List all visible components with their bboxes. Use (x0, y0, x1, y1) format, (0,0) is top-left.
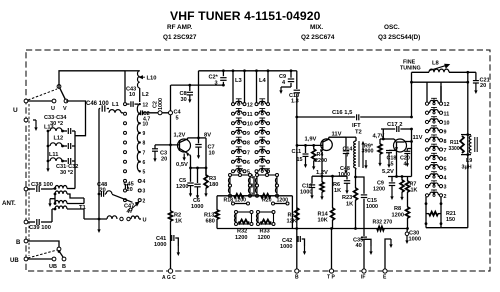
svg-text:MIX.: MIX. (310, 24, 323, 31)
svg-text:30: 30 (181, 97, 187, 103)
terminal TP (329, 269, 333, 273)
svg-text:12: 12 (143, 102, 149, 108)
svg-text:T P: T P (327, 275, 335, 281)
wire B line to terminal (296, 229, 298, 270)
wire Q3 base (380, 138, 394, 140)
capacitor C13 1000 (311, 176, 313, 184)
svg-text:B: B (62, 264, 66, 270)
svg-text:1K: 1K (334, 188, 341, 194)
svg-text:C46 100: C46 100 (86, 101, 109, 107)
Q2 collector up (323, 137, 329, 142)
resistor R13 680 on enclosure edge (216, 196, 218, 210)
ground arrow T1 center (50, 198, 55, 200)
svg-text:11V: 11V (413, 135, 423, 141)
svg-text:1K: 1K (346, 202, 353, 208)
svg-text:9: 9 (247, 131, 250, 137)
svg-text:L12: L12 (54, 136, 64, 142)
resistor R4 2200 (312, 144, 315, 147)
wire coil block right bus (74, 131, 76, 189)
Q1 emitter (180, 149, 189, 154)
terminal B bottom left (24, 239, 28, 243)
wire top rail to L10 (124, 71, 126, 102)
svg-text:30 *2: 30 *2 (60, 170, 73, 176)
svg-text:R33: R33 (260, 229, 270, 235)
svg-text:TUNING: TUNING (400, 66, 421, 72)
svg-text:1200: 1200 (373, 187, 385, 193)
svg-text:T2: T2 (355, 130, 362, 136)
svg-text:R8: R8 (394, 206, 401, 212)
terminal ANT lower (24, 220, 28, 224)
capacitor C39 (28, 221, 35, 223)
svg-text:10: 10 (129, 92, 135, 98)
svg-text:Q2 2SC674: Q2 2SC674 (301, 34, 335, 41)
svg-text:3: 3 (215, 81, 218, 87)
svg-text:IFT: IFT (352, 123, 361, 129)
svg-text:12: 12 (247, 102, 253, 108)
wire second rail under C2* (171, 84, 224, 86)
selector left contact column (124, 103, 127, 106)
svg-text:U: U (143, 218, 147, 224)
svg-text:1000: 1000 (280, 244, 292, 250)
UHF strip R33 1200 box (258, 212, 274, 224)
terminal below U (24, 118, 28, 122)
resistor R14 10K (332, 176, 334, 208)
svg-text:2: 2 (444, 194, 447, 200)
svg-text:RF AMP.: RF AMP. (167, 24, 192, 31)
svg-text:20: 20 (100, 188, 106, 194)
svg-text:40: 40 (356, 243, 362, 249)
svg-text:4: 4 (444, 175, 447, 181)
svg-text:R32: R32 (237, 229, 247, 235)
svg-text:1000: 1000 (338, 172, 350, 178)
wire 5.2V node (396, 150, 398, 176)
svg-text:V: V (63, 106, 67, 112)
switch linkage dashed (28, 104, 30, 256)
capacitor C7 10 (198, 138, 200, 144)
svg-text:L8: L8 (432, 61, 440, 67)
selector rows L3 L4 (232, 103, 235, 106)
resistor R2 1K AGC (170, 145, 172, 211)
svg-text:Q1 2SC927: Q1 2SC927 (163, 34, 197, 41)
svg-text:OSC.: OSC. (384, 24, 400, 31)
svg-text:150: 150 (446, 217, 455, 223)
wire switch top rail (59, 71, 125, 88)
svg-text:11: 11 (247, 112, 253, 118)
svg-text:5,2V: 5,2V (382, 169, 394, 175)
svg-text:10K: 10K (318, 218, 328, 224)
contact pair row left (232, 202, 235, 205)
svg-text:L11: L11 (49, 152, 58, 158)
svg-text:8: 8 (247, 141, 250, 147)
svg-text:4: 4 (251, 175, 254, 181)
svg-text:C16 1,5: C16 1,5 (332, 110, 353, 116)
svg-text:3300: 3300 (449, 146, 460, 152)
svg-text:3900: 3900 (362, 149, 374, 155)
svg-text:20: 20 (161, 157, 167, 163)
svg-text:10: 10 (444, 120, 450, 126)
svg-text:L4: L4 (259, 78, 267, 84)
svg-text:2200: 2200 (315, 158, 327, 164)
svg-text:UB: UB (49, 264, 57, 270)
capacitor C3 20 (154, 145, 156, 149)
wire U terminal stub (33, 119, 36, 121)
feedthrough capacitor C4 5 (169, 111, 173, 115)
dashed enclosure border (26, 50, 490, 271)
wire coil block left bus (47, 131, 49, 161)
U row bottom of selector (84, 218, 107, 220)
transistor Q2 mixer (321, 139, 333, 151)
feedthrough capacitor C2 1000 (158, 111, 162, 115)
svg-text:R18 1200: R18 1200 (224, 198, 247, 204)
svg-text:1,9V: 1,9V (305, 137, 317, 143)
transistor Q1 (178, 139, 191, 152)
capacitor C15 1000 (356, 177, 365, 194)
svg-text:C17 2: C17 2 (387, 122, 402, 128)
svg-text:L9: L9 (466, 158, 472, 164)
Q2 emitter down (322, 147, 323, 151)
svg-text:180: 180 (209, 182, 218, 188)
wire L3 feed drops (232, 71, 234, 103)
svg-text:5: 5 (176, 116, 179, 122)
svg-text:U: U (51, 106, 55, 112)
wire osc line down (411, 129, 413, 177)
svg-text:IF: IF (361, 275, 365, 281)
svg-text:1.3: 1.3 (291, 99, 299, 105)
resistor R7 1K (407, 177, 409, 182)
svg-text:6: 6 (143, 160, 146, 166)
svg-text:1,2V: 1,2V (174, 133, 186, 139)
UHF strip R32 1200 box (236, 212, 252, 224)
wire rotor feed diagonal (112, 194, 133, 202)
svg-text:7: 7 (346, 153, 349, 159)
wire T1 right connections (67, 188, 75, 190)
wire osc bottom bracket (426, 227, 468, 229)
svg-text:VHF TUNER 4-1151-04920: VHF TUNER 4-1151-04920 (170, 9, 321, 23)
svg-text:L3: L3 (235, 78, 243, 84)
capacitor C20 4 (407, 148, 411, 150)
resistor R8 1200 (407, 192, 409, 207)
wire C46 left drop (98, 109, 100, 220)
svg-text:3: 3 (251, 184, 254, 190)
svg-text:12: 12 (444, 102, 450, 108)
resistor R6 1K (320, 182, 324, 192)
svg-text:9: 9 (143, 131, 146, 137)
svg-text:3: 3 (143, 189, 146, 195)
svg-text:1K: 1K (411, 188, 418, 194)
Q1 emitter to 0.5V node (190, 155, 191, 168)
resistor R5 12K on B line (296, 145, 298, 228)
svg-text:L10: L10 (147, 76, 157, 82)
svg-text:C39 100: C39 100 (29, 225, 51, 231)
svg-text:L2: L2 (142, 92, 149, 98)
svg-text:2: 2 (143, 198, 146, 204)
svg-text:1000: 1000 (158, 98, 164, 110)
wire V contact to cap bus (66, 101, 86, 136)
svg-text:5: 5 (391, 162, 394, 168)
svg-text:3μH: 3μH (462, 165, 472, 171)
svg-text:7: 7 (444, 148, 447, 154)
svg-text:L1: L1 (112, 102, 120, 108)
svg-text:11: 11 (444, 111, 450, 117)
wire osc feed down (411, 72, 413, 117)
capacitor C18 5 (389, 149, 397, 151)
svg-text:680: 680 (206, 219, 215, 225)
capacitor C14 7 (345, 137, 347, 150)
bottom rail (217, 228, 407, 230)
svg-text:Q3 2SC544(D): Q3 2SC544(D) (378, 34, 420, 41)
svg-text:4: 4 (404, 162, 407, 168)
capacitor C6 1000 (197, 168, 199, 183)
svg-text:6: 6 (444, 157, 447, 163)
svg-text:4: 4 (143, 179, 146, 185)
svg-text:0,5V: 0,5V (176, 162, 188, 168)
svg-text:3: 3 (444, 185, 447, 191)
wire Q1 base (155, 144, 180, 146)
UHF strip box rows 4 3 2 right (257, 175, 277, 196)
wire T2 bottom (355, 168, 358, 177)
svg-text:1000: 1000 (191, 204, 203, 210)
svg-text:1K: 1K (175, 219, 182, 225)
terminal U input (24, 99, 28, 103)
capacitor C5 1200 (190, 168, 192, 182)
svg-text:R23: R23 (342, 195, 352, 201)
svg-text:C38 100: C38 100 (31, 182, 53, 188)
terminal IF (362, 269, 366, 273)
svg-text:UB: UB (10, 258, 19, 264)
svg-text:B: B (16, 240, 21, 246)
svg-text:1000: 1000 (154, 242, 166, 248)
osc selector feed drops (426, 82, 428, 101)
terminal B (295, 269, 299, 273)
terminal E (383, 269, 387, 273)
svg-text:ANT.: ANT. (2, 200, 16, 207)
resistor R3 180 (205, 168, 207, 175)
svg-text:1200: 1200 (258, 235, 270, 241)
svg-text:10: 10 (209, 151, 215, 157)
svg-text:1000: 1000 (366, 204, 378, 210)
oscillator coil rows (425, 102, 428, 105)
wire B+ line (296, 117, 298, 145)
resistor R23 1K (355, 177, 357, 188)
svg-text:7: 7 (143, 150, 146, 156)
Q1 collector (180, 138, 188, 143)
terminal ANT upper (24, 187, 28, 191)
wire TP (331, 229, 333, 270)
svg-text:9: 9 (444, 130, 447, 136)
wire mixer injection C16 (295, 116, 298, 119)
svg-text:7: 7 (247, 150, 250, 156)
svg-text:U: U (13, 107, 18, 114)
transistor Q3 (394, 139, 407, 152)
svg-text:1000: 1000 (300, 190, 312, 196)
svg-text:6: 6 (247, 160, 250, 166)
wire right bus (467, 72, 469, 227)
wire collector 8V line up to top rail (198, 71, 200, 138)
svg-text:R32 270: R32 270 (373, 220, 393, 226)
svg-text:T1: T1 (79, 205, 87, 211)
UHF sub-enclosure outline (217, 195, 292, 197)
osc selector feed wire (412, 81, 468, 83)
wire 8V to R3 node (199, 137, 207, 139)
wire tap 11 to Q1 base net (143, 112, 171, 114)
band switch S1 U/V (57, 85, 61, 89)
svg-text:20: 20 (480, 83, 486, 89)
contact pair row right (272, 202, 275, 205)
svg-text:12K: 12K (287, 219, 297, 225)
UHF strip box rows 4 3 2 left (230, 175, 250, 196)
ground arrow x99 (98, 219, 100, 231)
capacitor C38 (28, 188, 35, 190)
svg-text:A G C: A G C (162, 275, 176, 281)
terminal UB (24, 257, 28, 261)
emitter resistor (400, 180, 404, 192)
svg-text:1200: 1200 (392, 213, 404, 219)
terminal AGC (168, 269, 172, 273)
band switch S2 UB/B (28, 241, 59, 247)
svg-text:1000: 1000 (409, 237, 421, 243)
wire Q2 base (296, 144, 299, 147)
svg-text:4.7: 4.7 (143, 117, 150, 123)
wire L4 feed drops (256, 71, 258, 103)
svg-text:8: 8 (143, 141, 146, 147)
svg-text:1200: 1200 (176, 184, 188, 190)
svg-text:R20: R20 (262, 198, 272, 204)
ground arrow under L11 left (47, 161, 49, 170)
Q3 collector lead (405, 141, 412, 143)
svg-text:5: 5 (444, 166, 447, 172)
svg-text:1200: 1200 (235, 235, 247, 241)
svg-text:8: 8 (444, 139, 447, 145)
svg-text:5: 5 (143, 170, 146, 176)
Q3 emitter lead (396, 142, 398, 150)
capacitor C9 1200 (391, 177, 393, 182)
svg-text:10: 10 (247, 122, 253, 128)
svg-text:B: B (295, 275, 299, 281)
top rail RF (199, 70, 292, 72)
